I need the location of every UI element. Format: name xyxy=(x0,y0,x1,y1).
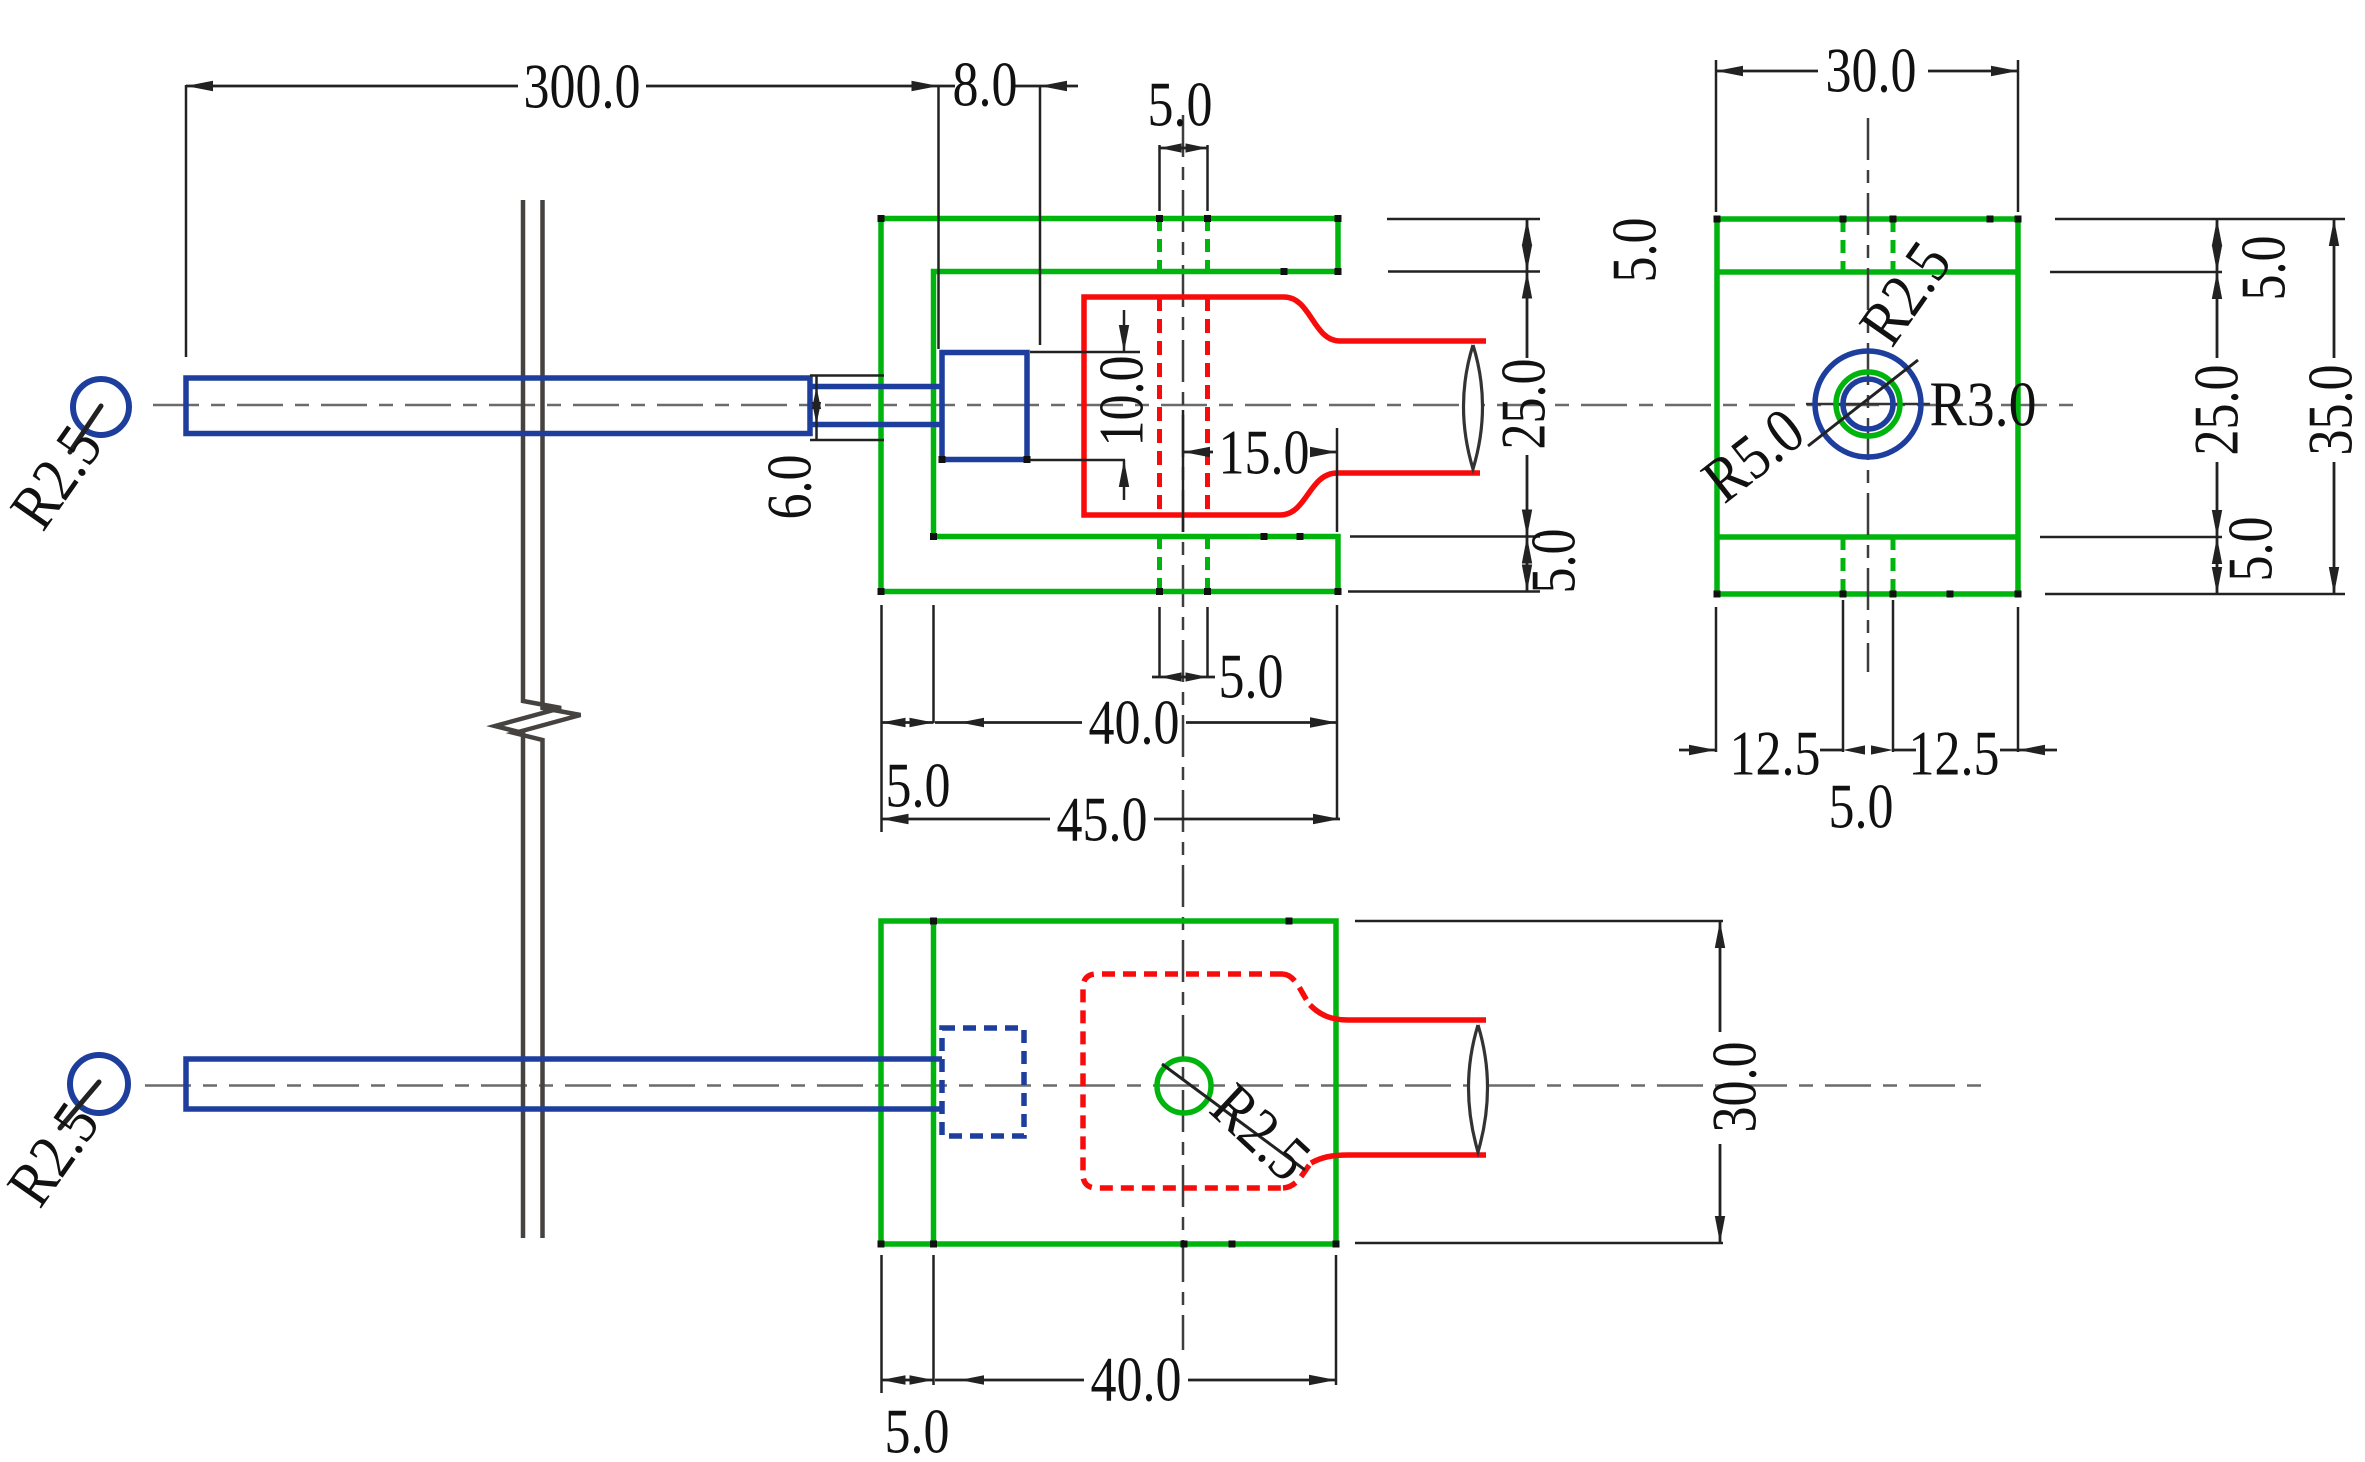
svg-text:5.0: 5.0 xyxy=(2215,517,2286,582)
blue rod head (top view) xyxy=(942,353,1027,460)
dimension 30.0 (plan view height) xyxy=(1355,921,1770,1243)
green clamp bracket (top view C-shape) xyxy=(881,219,1338,592)
blue outer circle R5.0 (end view) xyxy=(1815,351,1921,457)
dimension stack 5.0/25.0/5.0/35.0 (end view) xyxy=(2040,219,2365,594)
svg-text:15.0: 15.0 xyxy=(1219,417,1310,488)
red hidden bottom fillet (plan view) xyxy=(1283,1163,1311,1188)
green hidden pin hole line right (top arm) xyxy=(1205,218,1210,272)
svg-text:30.0: 30.0 xyxy=(1699,1042,1770,1133)
blue hidden rod head (plan view) xyxy=(942,1028,1024,1136)
dimension 40.0 (plan view) xyxy=(882,1255,1337,1415)
red hidden hole line right xyxy=(1205,297,1210,515)
break line left xyxy=(495,200,561,1238)
svg-text:12.5: 12.5 xyxy=(1909,718,2000,789)
centerline bottom view horizontal xyxy=(145,1084,1985,1087)
blue rod (plan view) xyxy=(186,1059,942,1109)
radius leader diagonal (plan view) xyxy=(1162,1064,1305,1170)
svg-text:6.0: 6.0 xyxy=(754,455,825,520)
svg-text:R3.0: R3.0 xyxy=(1930,369,2037,440)
dimension 30.0 (block width) xyxy=(1716,35,2018,213)
svg-text:5.0: 5.0 xyxy=(1148,69,1213,140)
red hidden top fillet (plan view) xyxy=(1283,974,1310,1005)
green hidden hole line right top (end view) xyxy=(1891,219,1896,272)
green hole circle R2.5 (plan view) xyxy=(1157,1059,1211,1113)
svg-text:30.0: 30.0 xyxy=(1826,35,1917,106)
svg-text:45.0: 45.0 xyxy=(1057,784,1148,855)
svg-text:300.0: 300.0 xyxy=(524,51,641,122)
svg-text:40.0: 40.0 xyxy=(1091,1344,1182,1415)
dimension 8.0 (head width) xyxy=(939,49,1079,346)
dimension 15.0 (hole to arm end) xyxy=(1183,410,1337,532)
svg-text:5.0: 5.0 xyxy=(885,1396,950,1462)
svg-text:5.0: 5.0 xyxy=(886,750,951,821)
blue rod end circle R2.5 (plan view) xyxy=(70,1055,128,1113)
svg-text:5.0: 5.0 xyxy=(1599,218,1670,283)
blue inner circle R2.5 (end view) xyxy=(1843,379,1893,429)
leader line (top left R2.5) xyxy=(70,406,101,452)
svg-text:10.0: 10.0 xyxy=(1086,356,1157,447)
dimension 6.0 (stem diameter) xyxy=(754,376,885,520)
svg-text:5.0: 5.0 xyxy=(1829,771,1894,842)
leader line (bottom left R2.5) xyxy=(60,1082,99,1128)
green hidden pin hole line right (bottom arm) xyxy=(1205,536,1210,592)
centerline top view horizontal xyxy=(153,404,2083,407)
green top plate line (end view) xyxy=(1717,269,2018,275)
red specimen grip outline (top view) xyxy=(1084,297,1486,515)
dimension 300.0 (rod length) xyxy=(186,51,939,358)
svg-text:12.5: 12.5 xyxy=(1730,718,1821,789)
green hidden pin hole line left (bottom arm) xyxy=(1157,536,1162,592)
blue rod stem top edge xyxy=(808,384,944,390)
blue rod (top view) xyxy=(186,378,810,434)
red hidden hole line left xyxy=(1157,297,1162,515)
dimension 12.5/12.5/5.0 (end view bottom) xyxy=(1679,600,2057,842)
vertical centerline (end view) xyxy=(1867,118,1870,672)
green clamp block (end view) xyxy=(1717,219,2018,594)
svg-text:40.0: 40.0 xyxy=(1089,687,1180,758)
svg-text:5.0: 5.0 xyxy=(1219,641,1284,712)
green block (plan view) xyxy=(881,921,1336,1244)
svg-text:25.0: 25.0 xyxy=(1488,359,1559,450)
green hidden pin hole line left (top arm) xyxy=(1157,218,1162,272)
svg-text:8.0: 8.0 xyxy=(953,49,1018,120)
dimension stack 5.0/25.0/5.0 (clamp arms, side view) xyxy=(1348,218,1670,594)
junction dots (end view) xyxy=(1714,216,1721,223)
crosshair horizontal (end view) xyxy=(1806,403,1930,406)
pin axis vertical centerline xyxy=(1182,115,1185,1350)
svg-text:5.0: 5.0 xyxy=(1518,529,1589,594)
junction dots (top view) xyxy=(878,215,885,222)
green hidden hole line right bottom (end view) xyxy=(1891,537,1896,594)
dimension 10.0 (head height) xyxy=(1030,310,1157,500)
red hidden specimen outline (plan view) xyxy=(1083,974,1283,1188)
dimension 5.0 (pin diameter bottom) xyxy=(1152,607,1284,712)
green circle R3.0 (end view) xyxy=(1836,372,1900,436)
dimension 5.0 (pin diameter top) xyxy=(1148,69,1213,212)
break line right xyxy=(515,200,581,1238)
blue rod stem bottom edge xyxy=(808,422,944,428)
red specimen top edge solid (plan view) xyxy=(1310,1005,1486,1020)
blue rod end circle R2.5 (top view) xyxy=(73,379,129,435)
cylindrical break lens (top view) xyxy=(1464,345,1483,469)
green bottom plate line (end view) xyxy=(1717,534,2018,540)
junction dots (plan view) xyxy=(878,1241,885,1248)
cylindrical break lens (plan view) xyxy=(1469,1025,1488,1152)
svg-text:5.0: 5.0 xyxy=(2228,236,2299,301)
dimension 45.0 (overall clamp, side view) xyxy=(882,784,1341,855)
green hidden hole line left bottom (end view) xyxy=(1841,537,1846,594)
dimension 40.0 (clamp body, side view) xyxy=(882,605,1338,832)
svg-text:35.0: 35.0 xyxy=(2295,365,2365,456)
green hidden hole line left top (end view) xyxy=(1841,219,1846,272)
svg-text:25.0: 25.0 xyxy=(2181,365,2252,456)
green wall line (plan view) xyxy=(931,921,937,1244)
red specimen bottom edge solid (plan view) xyxy=(1311,1155,1486,1163)
radius leader diagonal (end view) xyxy=(1808,360,1918,446)
